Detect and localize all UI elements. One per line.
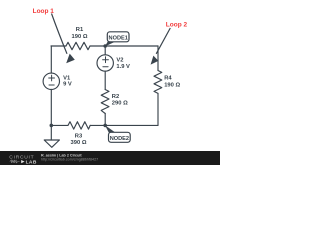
wire top-left horizontal <box>51 45 66 47</box>
annotation Loop 1 <box>33 8 75 63</box>
svg-text:290 Ω: 290 Ω <box>112 100 128 106</box>
svg-text:Loop 2: Loop 2 <box>166 21 188 28</box>
svg-text:V2: V2 <box>116 58 123 64</box>
resistor R4 <box>154 71 162 94</box>
logo CircuitLab <box>9 155 37 166</box>
svg-text:1.9 V: 1.9 V <box>116 64 130 70</box>
ground <box>44 140 59 147</box>
wire R2 to bottom <box>104 114 106 126</box>
resistor R2 <box>101 90 109 114</box>
svg-text:NODE2: NODE2 <box>110 136 129 142</box>
resistor R3 <box>68 122 90 129</box>
wire right vertical lower <box>157 93 159 125</box>
svg-text:390 Ω: 390 Ω <box>71 140 87 146</box>
wire bottom-right horizontal <box>90 124 158 126</box>
node junction dot NODE2 <box>103 124 107 128</box>
svg-text:190 Ω: 190 Ω <box>164 82 180 88</box>
svg-text:R4: R4 <box>164 76 172 82</box>
node label NODE1 <box>107 32 129 42</box>
voltage source V1 <box>43 73 59 89</box>
wire left vertical upper <box>50 46 52 73</box>
wire left vertical lower <box>50 90 52 141</box>
NODE1 label pointer <box>105 42 115 47</box>
svg-text:190 Ω: 190 Ω <box>72 34 88 40</box>
wire V2 to R2 <box>104 71 106 89</box>
wire bottom-left horizontal <box>51 124 68 126</box>
voltage source V2 <box>97 55 113 71</box>
svg-text:Loop 1: Loop 1 <box>33 8 55 15</box>
watermark bar <box>0 151 220 165</box>
svg-text:R3: R3 <box>75 134 83 140</box>
wire top-right horizontal <box>90 45 158 47</box>
resistor R1 <box>66 42 90 49</box>
svg-text:http://circuitlab.com/cmg88bhf: http://circuitlab.com/cmg88bhf8427 <box>41 158 98 162</box>
node junction dot NODE1 <box>103 44 107 48</box>
svg-text:R2: R2 <box>112 94 119 100</box>
svg-text:9 V: 9 V <box>63 81 72 87</box>
svg-text:LAB: LAB <box>26 159 37 165</box>
node label NODE2 <box>109 132 131 142</box>
svg-text:R1: R1 <box>76 27 84 33</box>
NODE2 label pointer <box>105 125 116 133</box>
junction dot ground <box>50 124 54 128</box>
svg-text:NODE1: NODE1 <box>109 35 128 41</box>
wire right vertical upper <box>157 46 159 71</box>
annotation Loop 2 <box>151 21 188 64</box>
wire V2 stub top <box>104 46 106 55</box>
